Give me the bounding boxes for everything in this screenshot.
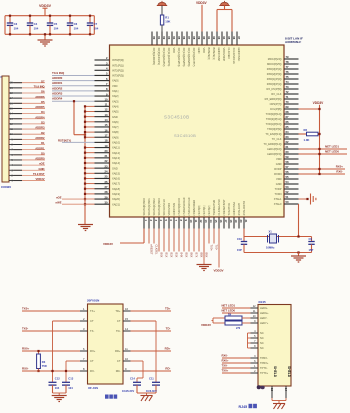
IC U1 left pin 4 INT2(P[2]) xyxy=(95,69,110,71)
svg-text:XA[2]: XA[2] xyxy=(112,94,119,98)
svg-text:21: 21 xyxy=(105,154,108,158)
IC U1 right pin 66 TXD[1](P[10]) xyxy=(284,123,299,125)
IC U1 right pin 77 RXD[3](P[4]) xyxy=(284,68,299,70)
connector P2 pin 14 wire / net D4 xyxy=(9,113,14,115)
svg-text:87: 87 xyxy=(187,36,191,39)
IC U1 top pin 80 XD[8](ED0/P0) xyxy=(151,32,153,46)
svg-text:ADDR1: ADDR1 xyxy=(35,146,45,150)
wire net B4 (bottom, rotated label) xyxy=(178,229,180,252)
wire net NET LED0 xyxy=(299,153,348,155)
svg-text:nRESET/RST: nRESET/RST xyxy=(222,199,226,216)
svg-text:22: 22 xyxy=(105,159,108,163)
svg-text:ADDR2: ADDR2 xyxy=(52,86,63,90)
svg-text:15: 15 xyxy=(105,123,108,127)
capacitor C11 10U/6.3CV xyxy=(155,381,157,384)
IC U1 left pin 15 XA[7] xyxy=(95,126,110,128)
svg-text:ADDR0: ADDR0 xyxy=(35,157,45,161)
IC U1 bottom pin 8 nSDCS[0]/nC0 xyxy=(178,217,180,229)
svg-text:89: 89 xyxy=(197,36,201,39)
wire net CLKSEL (bottom, rotated label) xyxy=(153,229,155,244)
svg-text:96: 96 xyxy=(232,36,236,39)
IC U1 left pin 11 XA[4] xyxy=(95,105,110,107)
svg-text:RD+: RD+ xyxy=(115,349,121,353)
svg-text:C4: C4 xyxy=(34,22,38,26)
ground (crystal) xyxy=(298,253,300,257)
wire crystal branch (bottom) xyxy=(243,229,245,237)
connector P2 pin 16 wire / net D5 xyxy=(9,102,14,104)
IC U1 right pin 55 VDD xyxy=(284,178,299,180)
IC U1 left pin 28 XA[19] xyxy=(95,193,110,195)
IC U1 left pin 25 XA[16] xyxy=(95,177,110,179)
svg-text:TX0+: TX0+ xyxy=(209,245,213,252)
svg-text:77: 77 xyxy=(286,65,289,69)
connector P2 pin 10 wire / net D2 xyxy=(9,133,14,135)
IC U1 left pin 5 INT3(P[3]) xyxy=(95,74,110,76)
svg-text:65: 65 xyxy=(286,125,289,129)
IC U1 bottom pin 19 GND/VSSA xyxy=(233,217,235,229)
svg-text:TXDN: TXDN xyxy=(274,192,281,196)
IC U1 left pin 7 VDD xyxy=(95,85,110,87)
svg-text:B0X: B0X xyxy=(159,253,163,258)
IC U1 top pin 88 XD[15](ED7/P7) xyxy=(191,32,193,46)
wire stub to GND bus xyxy=(85,152,95,154)
wire stub to GND bus xyxy=(85,131,95,133)
svg-text:XD[14](ED6/P6): XD[14](ED6/P6) xyxy=(187,48,191,67)
svg-text:C3: C3 xyxy=(14,22,18,26)
svg-text:D2: D2 xyxy=(41,131,45,135)
svg-text:76: 76 xyxy=(286,70,289,74)
J1 pin 10 LEDY- xyxy=(251,317,259,319)
svg-text:nWE: nWE xyxy=(56,201,62,205)
ground (U1 right, rotated) xyxy=(299,198,309,200)
svg-text:TXD[2](P[11]): TXD[2](P[11]) xyxy=(266,117,282,121)
J1 pin 9 LEDY+ xyxy=(251,322,259,324)
svg-text:XD[10](ED2/P2): XD[10](ED2/P2) xyxy=(162,48,166,67)
capacitor C9 15P (right of crystal) xyxy=(311,237,313,242)
svg-text:86: 86 xyxy=(182,36,186,39)
svg-text:104: 104 xyxy=(94,27,99,31)
ground (U2 right, hatched) xyxy=(146,393,148,396)
connector P2 pin 12 wire / net D3 xyxy=(9,123,14,125)
wire VDD pin row to rail xyxy=(299,108,320,110)
svg-text:XA[11]: XA[11] xyxy=(112,146,120,150)
label filter (CJK) xyxy=(105,395,109,399)
svg-text:97: 97 xyxy=(237,36,241,39)
svg-text:91: 91 xyxy=(207,36,211,39)
svg-text:14: 14 xyxy=(209,220,213,223)
svg-text:RX+: RX+ xyxy=(90,349,96,353)
wire net RST(KEY) xyxy=(62,141,95,143)
svg-text:16: 16 xyxy=(219,220,223,223)
wire net nWE (U1 left) xyxy=(62,203,95,205)
svg-text:17: 17 xyxy=(105,133,108,137)
IC U1 right pin 61 LED1(P[16]) xyxy=(284,148,299,150)
J1 pin 1 TPTX- xyxy=(251,367,259,369)
wire cap-bank right edge xyxy=(93,16,95,35)
svg-text:RX0-: RX0- xyxy=(222,354,228,358)
wire cap-bank bottom bus xyxy=(5,33,94,35)
IC U1 top pin 82 XD[10](ED2/P2) xyxy=(161,32,163,46)
IC U1 left pin 10 XA[3] xyxy=(95,100,110,102)
svg-text:T0.9 INQ: T0.9 INQ xyxy=(52,71,65,75)
IC U1 bottom pin 21 XTALO/XTO xyxy=(243,217,245,229)
svg-text:SDATA[0]/SD0: SDATA[0]/SD0 xyxy=(142,198,146,216)
IC U1 left pin 19 XA[11] xyxy=(95,147,110,149)
svg-text:XA[4]: XA[4] xyxy=(112,104,119,108)
IC U1 top pin 87 XD[14](ED6/P6) xyxy=(186,32,188,46)
svg-text:GND/VSSA: GND/VSSA xyxy=(232,202,236,216)
svg-text:D0: D0 xyxy=(41,151,45,155)
svg-text:XD[13](ED5/P5): XD[13](ED5/P5) xyxy=(182,48,186,67)
wire GND bus (U1 left) xyxy=(84,106,86,224)
svg-text:D3: D3 xyxy=(41,121,45,125)
svg-text:nSDCAS/nCA0: nSDCAS/nCA0 xyxy=(187,197,191,215)
IC U1 bottom pin 9 nSDRAS/nRA0 xyxy=(183,217,185,229)
svg-text:C13: C13 xyxy=(68,376,73,380)
wire stub to GND bus xyxy=(85,105,95,107)
IC U1 right pin 62 TX_ERR(P[14]) xyxy=(284,143,299,145)
svg-text:C14: C14 xyxy=(130,376,135,380)
svg-text:VDD: VDD xyxy=(112,84,118,88)
svg-text:104: 104 xyxy=(54,27,59,31)
svg-text:18: 18 xyxy=(229,220,233,223)
capacitor C12 104 xyxy=(52,381,54,384)
svg-text:XA[16]: XA[16] xyxy=(112,177,120,181)
svg-text:15P: 15P xyxy=(309,248,314,252)
svg-text:nECS[2]: nECS[2] xyxy=(207,205,211,215)
IC U1 top pin 97 GND/VSSC xyxy=(236,32,238,46)
svg-text:SDATA[3]/SD3: SDATA[3]/SD3 xyxy=(157,198,161,216)
U2 right pin 9 RD- xyxy=(123,370,131,372)
IC U1 right pin 53 TXDP xyxy=(284,188,299,190)
IC U1 top pin 81 XD[9](ED1/P1) xyxy=(156,32,158,46)
IC U1 bottom pin 16 CLKSEL/CS0 xyxy=(218,217,220,229)
U2 left pin 1 TX+ xyxy=(80,310,88,312)
svg-text:10U/6.3CV: 10U/6.3CV xyxy=(122,390,135,393)
svg-text:XTAL1: XTAL1 xyxy=(274,197,282,201)
IC U1 top pin 95 CLKOEN xyxy=(226,32,228,46)
IC U1 top pin 85 XD[12](ED4/P4) xyxy=(176,32,178,46)
svg-text:NET LED0: NET LED0 xyxy=(222,309,236,313)
IC U1 left pin 23 GND xyxy=(95,167,110,169)
svg-text:ADDR6: ADDR6 xyxy=(35,95,45,99)
svg-text:D6: D6 xyxy=(41,90,45,94)
svg-text:73: 73 xyxy=(286,85,289,89)
svg-text:CLKSEL/CS0: CLKSEL/CS0 xyxy=(217,199,221,216)
svg-text:XA[9]: XA[9] xyxy=(112,135,119,139)
svg-text:57: 57 xyxy=(286,165,289,169)
svg-text:ADDR4: ADDR4 xyxy=(52,97,63,101)
wire XTAL feed down to crystal xyxy=(298,204,300,237)
IC U1 bottom pin 5 SDCLK/SCL0 xyxy=(163,217,165,229)
svg-text:64: 64 xyxy=(286,130,289,134)
svg-text:XA[10]: XA[10] xyxy=(112,141,120,145)
svg-text:C10: C10 xyxy=(237,237,242,241)
svg-text:LEDY+: LEDY+ xyxy=(260,321,269,325)
wire net TX0+ (U2) xyxy=(22,310,80,312)
IC U1 left pin 9 XA[2] xyxy=(95,95,110,97)
svg-text:XA[0]: XA[0] xyxy=(112,79,119,83)
svg-text:SHELD: SHELD xyxy=(287,366,291,378)
svg-text:LEDY-: LEDY- xyxy=(260,316,268,320)
IC U1 left pin 14 XA[6] xyxy=(95,121,110,123)
svg-text:104: 104 xyxy=(74,27,79,31)
svg-text:68: 68 xyxy=(286,110,289,114)
svg-text:CT: CT xyxy=(117,359,121,363)
svg-text:TD-: TD- xyxy=(116,329,121,333)
svg-text:XTAL1/XTI: XTAL1/XTI xyxy=(237,203,241,216)
svg-text:72: 72 xyxy=(286,90,289,94)
svg-text:VDD3V: VDD3V xyxy=(196,1,208,5)
svg-text:LED0(P[15]): LED0(P[15]) xyxy=(267,152,281,156)
IC U1 right pin 67 TXD[2](P[11]) xyxy=(284,118,299,120)
svg-text:TMODE/TM0: TMODE/TM0 xyxy=(212,199,216,215)
wire stub to GND bus xyxy=(85,193,95,195)
svg-text:CLKOEN: CLKOEN xyxy=(227,48,231,59)
svg-text:XD[9](ED1/P1): XD[9](ED1/P1) xyxy=(157,48,161,66)
svg-text:54: 54 xyxy=(286,180,289,184)
wire net ADDR2 (U1 left) xyxy=(52,90,95,92)
wire stub to GND bus xyxy=(85,177,95,179)
svg-text:C5: C5 xyxy=(54,22,58,26)
IC U1 right pin 79 MDC(P[24]) xyxy=(284,58,299,60)
IC U1 left pin 2 INT0(P[0]) xyxy=(95,59,110,61)
svg-text:20: 20 xyxy=(239,220,243,223)
svg-text:VDD3V: VDD3V xyxy=(201,323,211,327)
IC U1 right pin 58 GND xyxy=(284,163,299,165)
svg-text:RX0+: RX0+ xyxy=(222,359,229,363)
svg-text:RX_CLK: RX_CLK xyxy=(271,92,281,96)
svg-text:CLKSEL: CLKSEL xyxy=(154,245,158,256)
IC U1 top pin 91 B0SIZE[0] xyxy=(206,32,208,46)
svg-text:CT: CT xyxy=(117,319,121,323)
svg-text:81: 81 xyxy=(157,36,161,39)
svg-text:RD-: RD- xyxy=(116,369,121,373)
wire net T0.9 INQ (U1 left) xyxy=(52,74,95,76)
wire net B6 (bottom, rotated label) xyxy=(188,229,190,252)
IC U1 bottom pin 11 nDWE/nWE0 xyxy=(193,217,195,229)
svg-text:RX0+: RX0+ xyxy=(336,165,344,169)
svg-text:XA[13]: XA[13] xyxy=(112,156,120,160)
svg-text:COL(P[8]): COL(P[8]) xyxy=(270,107,282,111)
svg-text:TXD[0](P[9]): TXD[0](P[9]) xyxy=(267,127,282,131)
svg-text:B1X: B1X xyxy=(164,253,168,258)
ground (U1 left bus) xyxy=(78,224,93,226)
wire net RX0+ (U1 right) xyxy=(299,168,346,170)
svg-text:LED1(P[16]): LED1(P[16]) xyxy=(267,147,281,151)
wire net B7 (bottom, rotated label) xyxy=(193,229,195,252)
ground (bottom pins) xyxy=(203,229,205,265)
wire VDD3V to top pin xyxy=(201,5,203,32)
connector P2 pin 11 wire / net ADDR3 xyxy=(9,128,14,130)
capacitor C13 104 xyxy=(65,381,67,384)
J1 pin 12 LEDG- xyxy=(251,307,259,309)
IC U1 top pin 84 VDD xyxy=(171,32,173,46)
wire shield to ground (J1) xyxy=(271,398,273,401)
svg-text:MDIO(P[25]): MDIO(P[25]) xyxy=(267,62,282,66)
svg-text:SDCLK/SCL0: SDCLK/SCL0 xyxy=(162,199,166,216)
svg-text:50: 50 xyxy=(286,200,289,204)
connector P2 pin 2 wire / net T0.9 RST xyxy=(9,174,14,176)
svg-text:78: 78 xyxy=(286,60,289,64)
IC U1 left pin 26 XA[17] xyxy=(95,183,110,185)
wire stub to GND bus xyxy=(85,111,95,113)
svg-text:INT3(P[3]): INT3(P[3]) xyxy=(112,74,124,78)
wire net RX0- (U2) xyxy=(22,370,80,372)
svg-text:C12: C12 xyxy=(55,376,60,380)
svg-text:104: 104 xyxy=(55,386,60,390)
svg-text:NC: NC xyxy=(260,336,264,340)
svg-text:TXD[1](P[10]): TXD[1](P[10]) xyxy=(266,122,282,126)
svg-text:TXDP: TXDP xyxy=(275,187,282,191)
svg-text:R3: R3 xyxy=(42,360,46,364)
wire net nRESET (bottom, rotated label) xyxy=(148,229,150,244)
svg-text:69: 69 xyxy=(286,105,289,109)
svg-text:TX-: TX- xyxy=(90,329,94,333)
wire net RX0- (J1) xyxy=(222,357,251,359)
svg-text:26: 26 xyxy=(105,180,108,184)
crystal X1 10MHz xyxy=(267,235,269,243)
svg-text:MDC(P[24]): MDC(P[24]) xyxy=(268,57,282,61)
svg-text:93: 93 xyxy=(217,36,221,39)
svg-text:XA[14]: XA[14] xyxy=(112,161,120,165)
U2 right pin 10 CT xyxy=(123,360,131,362)
wire net ADDR1 (U1 left) xyxy=(52,85,95,87)
svg-text:TX_CLK: TX_CLK xyxy=(272,137,282,141)
svg-text:CT: CT xyxy=(90,359,94,363)
connector P2 pin 4 wire / net nOE xyxy=(9,164,14,166)
IC U1 bottom pin 20 XTAL1/XTI xyxy=(238,217,240,229)
svg-text:VDD/VDDP: VDD/VDDP xyxy=(222,48,226,62)
wire gnd bus (U2 right caps) xyxy=(137,392,156,394)
svg-text:20F001N: 20F001N xyxy=(87,299,99,303)
wire net B1 (bottom, rotated label) xyxy=(163,229,165,252)
wire VDD3V vertical rail (U1 right) xyxy=(319,105,321,174)
wire stub to GND bus xyxy=(85,203,95,205)
svg-text:10MHz: 10MHz xyxy=(266,245,275,249)
svg-text:XA[5]: XA[5] xyxy=(112,110,119,114)
IC U1 left pin 20 XA[12] xyxy=(95,152,110,154)
svg-text:XA[18]: XA[18] xyxy=(112,187,120,191)
resistor R2 1.0K xyxy=(299,133,307,135)
svg-text:D4: D4 xyxy=(41,110,45,114)
svg-text:B6X: B6X xyxy=(189,253,193,258)
svg-text:60: 60 xyxy=(286,150,289,154)
svg-text:nECS[0]: nECS[0] xyxy=(197,205,201,215)
svg-text:C6: C6 xyxy=(74,22,78,26)
wire stub to GND bus xyxy=(85,121,95,123)
wire stub to GND bus xyxy=(85,188,95,190)
label GND (J1 bottom-left) xyxy=(257,385,261,389)
wire net TX0+ (J1) xyxy=(222,372,251,374)
wire cap-bank left edge xyxy=(4,16,6,35)
wire net ADDR3 (U1 left) xyxy=(52,95,95,97)
svg-text:VDD: VDD xyxy=(202,48,206,54)
wire net B9 (bottom, rotated label) xyxy=(203,229,205,252)
IC U1 left pin 17 XA[9] xyxy=(95,136,110,138)
svg-text:VDD: VDD xyxy=(276,177,282,181)
J1 pin 3 TPRX- xyxy=(251,357,259,359)
svg-text:15: 15 xyxy=(214,220,218,223)
svg-text:C11: C11 xyxy=(149,376,154,380)
svg-text:XA[12]: XA[12] xyxy=(112,151,120,155)
svg-text:C7: C7 xyxy=(94,22,98,26)
svg-text:INT0(P[0]): INT0(P[0]) xyxy=(112,58,124,62)
IC U1 bottom pin 13 nECS[1] xyxy=(203,217,205,229)
IC U1 right pin 59 VDD xyxy=(284,158,299,160)
svg-text:TD-: TD- xyxy=(166,327,171,331)
IC U1 bottom pin 3 SDATA[2]/SD2 xyxy=(153,217,155,229)
svg-text:RD+: RD+ xyxy=(165,347,171,351)
svg-text:RXD[3](P[4]): RXD[3](P[4]) xyxy=(267,67,282,71)
svg-text:INT1(P[1]): INT1(P[1]) xyxy=(112,63,124,67)
svg-text:NC: NC xyxy=(260,331,264,335)
svg-text:XD[8](ED0/P0): XD[8](ED0/P0) xyxy=(152,48,156,66)
IC U1 right pin 72 RX_CLK xyxy=(284,93,299,95)
connector P2 pin 6 wire / net D0 xyxy=(9,154,14,156)
svg-text:104: 104 xyxy=(14,27,19,31)
IC U1 left pin 21 XA[13] xyxy=(95,157,110,159)
svg-text:13: 13 xyxy=(204,220,208,223)
connector P2 pin 8 wire / net D1 xyxy=(9,144,14,146)
wire net RX0+ (J1) xyxy=(222,362,251,364)
IC U1 top pin 96 XCLK/SDCLK xyxy=(231,32,233,46)
IC U1 bottom pin 18 TCK/JTCK xyxy=(228,217,230,229)
svg-text:52: 52 xyxy=(286,190,289,194)
J1 pin 8 NC xyxy=(251,347,259,349)
svg-text:B3X: B3X xyxy=(174,253,178,258)
svg-text:XA[20]: XA[20] xyxy=(112,197,120,201)
power port (top bracket) xyxy=(224,1,226,2)
svg-text:25: 25 xyxy=(105,175,108,179)
svg-text:82: 82 xyxy=(162,36,166,39)
svg-text:21: 21 xyxy=(244,220,248,223)
resistor R5 270 xyxy=(213,322,225,324)
svg-text:T0.9 INQ: T0.9 INQ xyxy=(34,84,45,88)
svg-text:15: 15 xyxy=(125,317,128,321)
svg-text:VDD3V: VDD3V xyxy=(214,269,224,273)
IC U1 right pin 75 RXD[1](P[2]) xyxy=(284,78,299,80)
svg-text:RJ45: RJ45 xyxy=(239,405,248,409)
svg-text:NC: NC xyxy=(260,341,264,345)
svg-text:63: 63 xyxy=(286,135,289,139)
IC U1 right pin 76 RXD[2](P[3]) xyxy=(284,73,299,75)
svg-text:LEDG+: LEDG+ xyxy=(260,311,269,315)
IC U1 right pin 68 TXD[3](P[12]) xyxy=(284,113,299,115)
wire net B8 (bottom, rotated label) xyxy=(198,229,200,252)
svg-text:S3C4510B: S3C4510B xyxy=(174,133,196,138)
svg-text:16: 16 xyxy=(105,128,108,132)
svg-text:B0SIZE[0]: B0SIZE[0] xyxy=(207,48,211,60)
svg-text:GND/VSSC: GND/VSSC xyxy=(237,48,241,62)
svg-text:CRS(P[7]): CRS(P[7]) xyxy=(270,102,282,106)
svg-text:B4X: B4X xyxy=(179,253,183,258)
U2 right pin 11 RD+ xyxy=(123,350,131,352)
svg-text:XA[6]: XA[6] xyxy=(112,120,119,124)
ground (J1, hatched) xyxy=(273,403,285,405)
U2 right pin 16 TD+ xyxy=(123,310,131,312)
svg-text:83: 83 xyxy=(167,36,171,39)
svg-text:TD+: TD+ xyxy=(115,309,121,313)
IC U1 right pin 73 RX_DV(P[5]) xyxy=(284,88,299,90)
IC U1 left pin 22 XA[14] xyxy=(95,162,110,164)
svg-text:RD-: RD- xyxy=(165,367,170,371)
wire stub to GND bus xyxy=(85,183,95,185)
svg-text:10: 10 xyxy=(189,220,193,223)
svg-text:85: 85 xyxy=(177,36,181,39)
wire stub to GND bus xyxy=(85,198,95,200)
svg-text:VDD: VDD xyxy=(172,48,176,54)
